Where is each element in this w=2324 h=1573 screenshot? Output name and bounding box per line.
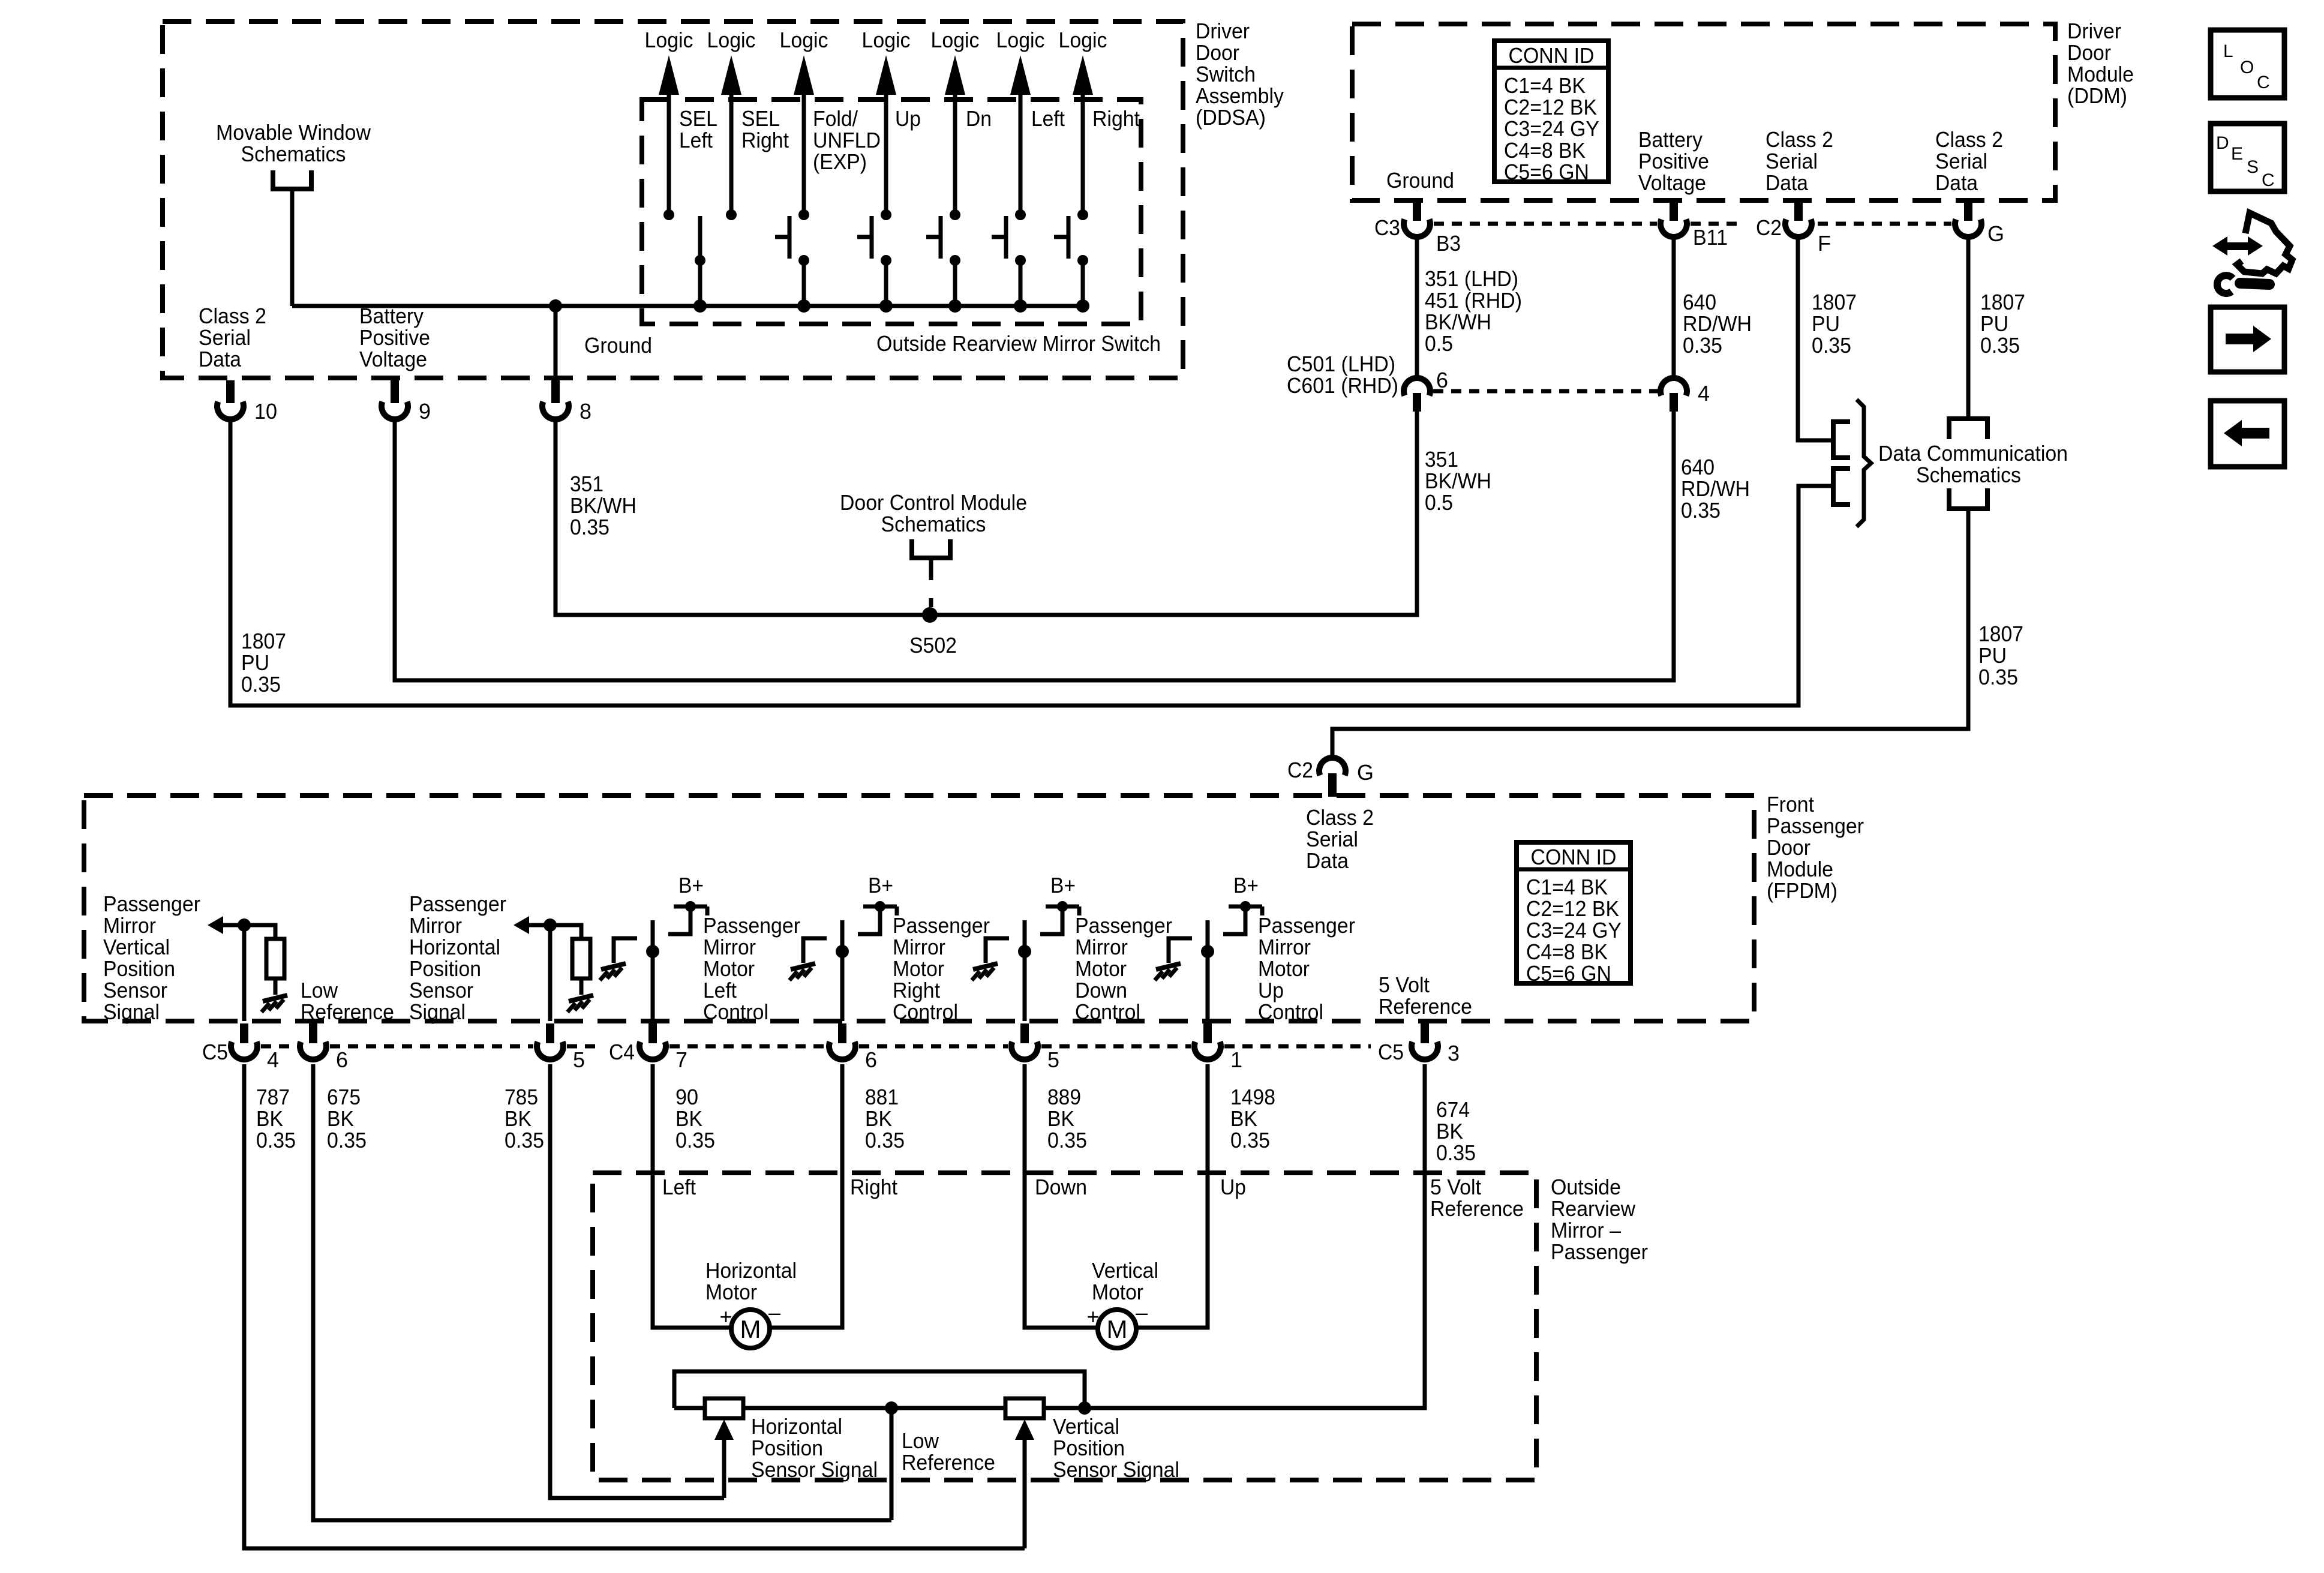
svg-text:1807: 1807 [1980, 290, 2025, 314]
wire: logic output 7 [1081, 91, 1085, 215]
wire: switch 1477 to bus [884, 260, 888, 306]
svg-text:Left: Left [1031, 106, 1065, 131]
connector pin 7 (FPDM bottom) [648, 1023, 657, 1043]
svg-text:Positive: Positive [1638, 149, 1709, 173]
off-page symbol Door Control Module Schematics [912, 539, 950, 558]
svg-text:Logic: Logic [645, 28, 693, 52]
svg-text:C4: C4 [609, 1040, 635, 1064]
svg-text:Mirror: Mirror [893, 935, 945, 959]
svg-text:B+: B+ [1233, 873, 1259, 897]
ground (sensor) x=407 [263, 995, 287, 1001]
svg-text:Control: Control [1075, 999, 1140, 1024]
svg-text:Control: Control [703, 999, 768, 1024]
wire sensor to pin x=407 [242, 925, 247, 1021]
svg-text:(EXP): (EXP) [813, 149, 867, 174]
B+ feed bar (motor Up) [1229, 905, 1262, 909]
wire motor Left control [651, 920, 655, 1021]
switch blade at x=1805 [1067, 216, 1071, 259]
svg-text:Mirror: Mirror [409, 913, 462, 938]
svg-text:Position: Position [1053, 1436, 1125, 1460]
svg-text:6: 6 [865, 1047, 877, 1072]
svg-text:Mirror: Mirror [1258, 935, 1311, 959]
inline connector pin 4 [1661, 378, 1687, 395]
switch blade at x=1592 [939, 216, 943, 259]
wire motor up control to vertical motor [1136, 1064, 1208, 1328]
arrowhead logic 5 [945, 55, 965, 95]
svg-text:C: C [2262, 170, 2275, 190]
box: Outside Rearview Mirror Switch [642, 100, 1141, 324]
wire sensor to pin x=917 [548, 925, 553, 1021]
brace (data comm group) [1857, 400, 1871, 527]
svg-text:B+: B+ [868, 873, 893, 897]
svg-text:Class 2: Class 2 [1765, 127, 1833, 152]
svg-text:BK: BK [675, 1106, 702, 1131]
off-page bracket lower (data comm) [1833, 469, 1850, 505]
svg-text:Sensor Signal: Sensor Signal [751, 1457, 878, 1482]
svg-text:4: 4 [1698, 381, 1710, 406]
wire: logic output 4 [884, 91, 888, 215]
svg-text:4: 4 [267, 1047, 279, 1072]
wire motor Down control [1023, 920, 1027, 1021]
svg-text:(DDSA): (DDSA) [1196, 105, 1266, 130]
svg-text:1: 1 [1230, 1047, 1242, 1072]
svg-text:0.35: 0.35 [327, 1128, 367, 1152]
contact dot SEL blade [695, 255, 705, 266]
svg-text:0.35: 0.35 [1978, 665, 2018, 689]
arrowhead logic 2 [721, 55, 741, 95]
connector pin 6 (FPDM bottom) [309, 1023, 317, 1043]
potentiometer body (vertical) [1005, 1398, 1044, 1418]
svg-text:Front: Front [1767, 792, 1814, 816]
wire: SEL blade to bus [698, 260, 702, 306]
svg-text:C3=24 GY: C3=24 GY [1504, 116, 1599, 141]
svg-text:Serial: Serial [199, 325, 251, 350]
wire: logic output 6 [1019, 91, 1023, 215]
svg-text:Sensor: Sensor [409, 978, 473, 1002]
svg-text:785: 785 [505, 1085, 538, 1109]
svg-text:Data Communication: Data Communication [1878, 441, 2068, 466]
wire 785: FPDM pin 5 to horizontal wiper [550, 1064, 724, 1498]
connector line FPDM [261, 1044, 296, 1049]
svg-text:Class 2: Class 2 [199, 304, 266, 328]
svg-text:E: E [2231, 144, 2243, 164]
icon wrench/diagnostic [2212, 213, 2292, 293]
svg-text:Motor: Motor [705, 1280, 757, 1304]
svg-text:Driver: Driver [1196, 19, 1250, 43]
svg-text:S: S [2247, 157, 2259, 177]
svg-text:881: 881 [865, 1085, 899, 1109]
wire: logic output 3 [802, 91, 806, 215]
svg-text:Schematics: Schematics [881, 512, 986, 536]
svg-text:Door Control Module: Door Control Module [840, 490, 1027, 515]
svg-text:1807: 1807 [1978, 622, 2023, 646]
arrowhead logic 4 [876, 55, 896, 95]
svg-text:Data: Data [1765, 170, 1809, 195]
junction dot sensor x=917 [544, 918, 557, 932]
svg-text:1498: 1498 [1230, 1085, 1275, 1109]
connector pin 6 (FPDM bottom) [838, 1023, 846, 1043]
svg-text:Outside Rearview Mirror Switch: Outside Rearview Mirror Switch [876, 331, 1161, 356]
lower contact dot x=1592 [950, 255, 960, 266]
svg-text:Ground: Ground [584, 333, 652, 358]
svg-text:Class 2: Class 2 [1935, 127, 2003, 152]
svg-text:C5=6 GN: C5=6 GN [1526, 961, 1611, 986]
svg-text:CONN ID: CONN ID [1531, 845, 1617, 869]
svg-text:351: 351 [570, 472, 603, 496]
svg-text:SEL: SEL [741, 106, 780, 131]
svg-text:0.35: 0.35 [1436, 1140, 1476, 1165]
svg-text:O: O [2240, 58, 2254, 77]
connector pin B3 (DDM) [1413, 203, 1421, 221]
svg-text:BK/WH: BK/WH [570, 493, 636, 518]
svg-text:Down: Down [1075, 978, 1127, 1002]
svg-text:Left: Left [679, 128, 713, 152]
svg-text:BK: BK [1436, 1119, 1463, 1143]
module box: Front Passenger Door Module (FPDM) [84, 795, 1754, 1021]
svg-text:Vertical: Vertical [1053, 1414, 1119, 1439]
switch T-bar at x=1340 [775, 235, 789, 239]
svg-text:C2: C2 [1756, 215, 1782, 240]
wiper arrow (horizontal sensor) [722, 1439, 726, 1498]
contact dot switch 4 [881, 209, 891, 220]
contact dot switch 3 [798, 209, 809, 220]
icon box arrow right [2211, 307, 2284, 372]
svg-text:674: 674 [1436, 1097, 1470, 1122]
svg-text:RD/WH: RD/WH [1681, 476, 1750, 501]
wire 675: FPDM pin 6 to low reference [313, 1064, 891, 1520]
svg-text:0.35: 0.35 [570, 515, 609, 539]
svg-text:0.35: 0.35 [256, 1128, 296, 1152]
switch blade: mirror select (SEL) [698, 216, 702, 260]
switch blade at x=1340 [788, 216, 792, 259]
wire: MWS stem to ground bus [290, 189, 295, 306]
svg-text:SEL: SEL [679, 106, 717, 131]
svg-text:BK: BK [327, 1106, 354, 1131]
resistor (sensor pull-down) x=407 [266, 939, 284, 978]
resistor (sensor pull-down) x=917 [572, 939, 590, 978]
svg-text:Switch: Switch [1196, 62, 1256, 86]
wire 5 volt reference [1085, 1064, 1425, 1408]
svg-text:Voltage: Voltage [359, 347, 427, 371]
svg-text:C5: C5 [1378, 1040, 1404, 1064]
svg-text:PU: PU [1980, 311, 2008, 336]
svg-text:Mirror: Mirror [103, 913, 156, 938]
svg-text:Sensor Signal: Sensor Signal [1053, 1457, 1179, 1482]
svg-text:C: C [2257, 73, 2270, 92]
chassis ground (motor Down) [973, 963, 998, 969]
table CONN ID (DDM) [1494, 41, 1608, 184]
B+ feed bar (motor Left) [674, 905, 707, 909]
svg-text:CONN ID: CONN ID [1509, 43, 1595, 68]
svg-text:0.35: 0.35 [505, 1128, 544, 1152]
svg-text:Battery: Battery [1638, 127, 1703, 152]
svg-text:889: 889 [1047, 1085, 1081, 1109]
svg-text:Module: Module [2067, 62, 2134, 86]
switch T-bar at x=1592 [926, 235, 941, 239]
svg-text:Driver: Driver [2067, 19, 2121, 43]
arrowhead logic 1 [659, 55, 679, 95]
junction dot motor Left [646, 945, 659, 958]
junction switch 1805/bus [1076, 299, 1089, 313]
svg-text:0.35: 0.35 [675, 1128, 715, 1152]
wire resistor to ground x=407 [274, 978, 278, 995]
svg-text:Passenger: Passenger [703, 913, 800, 938]
module box: Driver Door Module (DDM) [1352, 24, 2055, 200]
svg-text:Control: Control [893, 999, 958, 1024]
wire motor Right control [840, 920, 845, 1021]
svg-text:0.5: 0.5 [1425, 490, 1453, 515]
svg-text:Down: Down [1035, 1175, 1087, 1199]
junction switch 1340/bus [797, 299, 810, 313]
svg-text:8: 8 [580, 399, 591, 424]
svg-text:Serial: Serial [1306, 827, 1358, 851]
junction dot motor Right [836, 945, 849, 958]
connector pin G C2 (FPDM top) [1328, 773, 1337, 797]
wire 787: FPDM pin 4 to vertical wiper [244, 1064, 1025, 1548]
svg-text:Horizontal: Horizontal [409, 935, 500, 959]
svg-text:Data: Data [1306, 848, 1349, 873]
svg-text:Passenger: Passenger [1551, 1239, 1648, 1264]
svg-text:C4=8 BK: C4=8 BK [1526, 939, 1608, 964]
svg-text:C1=4 BK: C1=4 BK [1504, 73, 1586, 98]
svg-text:Door: Door [1196, 40, 1239, 65]
svg-text:Mirror: Mirror [1075, 935, 1128, 959]
svg-text:Passenger: Passenger [1075, 913, 1172, 938]
connector pin 3 (FPDM bottom) [1421, 1023, 1429, 1043]
B+ dot (motor Left) [685, 901, 696, 912]
junction SEL blade/bus [693, 299, 707, 313]
wire 351 BK/WH: DDM ground pin to inline connector 6 [1415, 238, 1419, 380]
off-page symbol on G wire (bottom) [1949, 488, 1987, 509]
chassis ground (motor Up) [1156, 963, 1181, 969]
contact dot switch 1 [663, 209, 674, 220]
lower contact dot x=1477 [881, 255, 891, 266]
svg-text:C1=4 BK: C1=4 BK [1526, 875, 1608, 899]
svg-text:Position: Position [751, 1436, 823, 1460]
svg-text:Right: Right [893, 978, 940, 1002]
svg-text:6: 6 [336, 1047, 348, 1072]
B+ dot (motor Down) [1057, 901, 1068, 912]
svg-text:+: + [1086, 1304, 1099, 1329]
svg-text:+: + [719, 1304, 732, 1329]
switch blade at x=1477 [870, 216, 874, 259]
svg-text:0.35: 0.35 [1681, 498, 1721, 523]
svg-text:M: M [740, 1315, 761, 1343]
svg-text:0.35: 0.35 [1812, 333, 1851, 358]
junction dot motor Down [1018, 945, 1031, 958]
icon box LOC [2211, 30, 2284, 98]
svg-text:Ground: Ground [1386, 168, 1454, 193]
motor M2 (vertical) [1098, 1310, 1136, 1348]
svg-text:Positive: Positive [359, 325, 430, 350]
svg-text:Movable Window: Movable Window [216, 120, 371, 145]
wire to pull-up resistor x=917 [550, 925, 581, 939]
wire 640 RD/WH: inline 4 down/left to DDSA pin 9 [395, 412, 1674, 680]
svg-text:9: 9 [419, 399, 431, 424]
svg-text:C5=6 GN: C5=6 GN [1504, 160, 1589, 184]
svg-text:BK: BK [505, 1106, 532, 1131]
connector pin 4 (FPDM bottom) [240, 1023, 248, 1043]
connector pin F (DDM) [1794, 203, 1803, 221]
svg-text:Rearview: Rearview [1551, 1196, 1636, 1221]
svg-text:Position: Position [103, 956, 175, 981]
icon box arrow left [2211, 401, 2284, 467]
wiper arrow (vertical sensor) [1023, 1439, 1027, 1548]
svg-text:3: 3 [1448, 1041, 1460, 1065]
svg-text:Low: Low [902, 1428, 939, 1453]
svg-text:Module: Module [1767, 857, 1833, 881]
svg-text:C2=12 BK: C2=12 BK [1504, 95, 1597, 119]
svg-text:Control: Control [1258, 999, 1323, 1024]
svg-text:Reference: Reference [902, 1450, 995, 1475]
svg-text:BK: BK [1047, 1106, 1074, 1131]
svg-text:5 Volt: 5 Volt [1430, 1175, 1481, 1199]
svg-text:Reference: Reference [1430, 1196, 1524, 1221]
switch blade high-side (motor Right) [858, 906, 880, 934]
svg-text:C2: C2 [1287, 758, 1313, 782]
lower contact dot x=1805 [1077, 255, 1088, 266]
contact dot switch 6 [1015, 209, 1026, 220]
svg-text:F: F [1818, 231, 1831, 256]
svg-text:Mirror –: Mirror – [1551, 1218, 1621, 1242]
inline connector C501/C601 pin 6 [1404, 378, 1430, 395]
svg-text:0.35: 0.35 [241, 672, 281, 697]
svg-text:PU: PU [241, 650, 269, 675]
ground branch low-side (motor Up) [1169, 938, 1192, 963]
svg-text:Passenger: Passenger [103, 891, 200, 916]
arrowhead logic 6 [1010, 55, 1031, 95]
icon box DESC [2211, 124, 2284, 191]
svg-text:0.35: 0.35 [1980, 333, 2020, 358]
svg-text:Logic: Logic [707, 28, 756, 52]
wire: mirror switch ground bus [292, 304, 1083, 308]
svg-text:Vertical: Vertical [103, 935, 170, 959]
svg-text:6: 6 [1436, 368, 1448, 392]
svg-text:0.5: 0.5 [1425, 331, 1453, 356]
svg-text:Signal: Signal [103, 999, 160, 1024]
svg-text:675: 675 [327, 1085, 361, 1109]
module box: Driver Door Switch Assembly (DDSA) [163, 22, 1183, 378]
arrowhead logic 7 [1073, 55, 1093, 95]
B+ feed bar (motor Down) [1046, 905, 1079, 909]
wire resistor to ground x=917 [580, 978, 584, 995]
svg-text:C2=12 BK: C2=12 BK [1526, 896, 1619, 921]
svg-text:PU: PU [1978, 643, 2007, 668]
svg-text:0.35: 0.35 [1047, 1128, 1087, 1152]
contact dot switch 7 [1077, 209, 1088, 220]
svg-text:Door: Door [1767, 835, 1810, 860]
svg-text:(DDM): (DDM) [2067, 83, 2127, 108]
arrowhead logic 3 [794, 55, 814, 95]
svg-text:BK/WH: BK/WH [1425, 469, 1491, 493]
B+ feed bar (motor Right) [863, 905, 897, 909]
junction switch 1701/bus [1014, 299, 1027, 313]
svg-text:640: 640 [1683, 290, 1716, 314]
svg-text:RD/WH: RD/WH [1683, 311, 1752, 336]
svg-text:Passenger: Passenger [893, 913, 990, 938]
svg-text:C4=8 BK: C4=8 BK [1504, 138, 1586, 163]
svg-text:Fold/: Fold/ [813, 106, 858, 131]
wire: pin 8 to box edge [554, 306, 558, 379]
svg-text:Logic: Logic [1059, 28, 1107, 52]
svg-text:351 (LHD): 351 (LHD) [1425, 266, 1518, 291]
svg-text:–: – [768, 1300, 780, 1325]
wire 1807 PU: DDM pin F to data comm bracket [1798, 238, 1831, 440]
wire motor right control to horizontal motor [769, 1064, 842, 1328]
svg-text:G: G [1357, 760, 1374, 785]
svg-text:Voltage: Voltage [1638, 170, 1706, 195]
wire motor left control to horizontal motor [653, 1064, 732, 1328]
lower contact dot x=1340 [798, 255, 809, 266]
svg-text:Low: Low [301, 978, 338, 1002]
table CONN ID (FPDM) [1517, 842, 1631, 986]
wire sensor element line [674, 1406, 1425, 1410]
wire: logic output 2 [729, 91, 734, 215]
wire 1807 PU: data comm symbol to FPDM C2 pin G [1332, 509, 1968, 758]
connector pin 8 (DDSA) [551, 380, 560, 403]
svg-text:C501 (LHD): C501 (LHD) [1287, 352, 1395, 376]
off-page symbol on G wire (top) [1949, 419, 1987, 439]
svg-text:Signal: Signal [409, 999, 466, 1024]
svg-text:Horizontal: Horizontal [705, 1258, 797, 1283]
connector line C501 [1433, 389, 1658, 394]
svg-text:Logic: Logic [931, 28, 980, 52]
junction dot sensor x=407 [238, 918, 251, 932]
signal arrow (x=917) [514, 916, 529, 934]
wire sensor top rail [674, 1371, 1085, 1408]
off-page bracket upper (data comm) [1833, 422, 1850, 458]
connector pin 10 (DDSA) [226, 380, 235, 403]
off-page symbol: Movable Window Schematics [273, 170, 311, 189]
ground branch low-side (motor Right) [803, 938, 827, 963]
wire: switch 1592 to bus [953, 260, 957, 306]
module box: Outside Rearview Mirror - Passenger [593, 1173, 1536, 1480]
svg-text:BK: BK [1230, 1106, 1257, 1131]
svg-text:Right: Right [1092, 106, 1140, 131]
svg-text:Schematics: Schematics [241, 142, 346, 166]
junction dot low reference [885, 1401, 898, 1415]
svg-text:0.35: 0.35 [1683, 333, 1722, 358]
svg-text:Logic: Logic [780, 28, 828, 52]
svg-text:Mirror: Mirror [703, 935, 756, 959]
svg-text:Serial: Serial [1935, 149, 1987, 173]
svg-text:M: M [1107, 1315, 1128, 1343]
wire motor Up control [1206, 920, 1210, 1021]
svg-text:BK: BK [256, 1106, 283, 1131]
wire 351: inline 6 down/left to S502 and DDSA pin 8 [556, 412, 1417, 615]
svg-text:(FPDM): (FPDM) [1767, 878, 1837, 903]
svg-text:Motor: Motor [703, 956, 755, 981]
svg-text:90: 90 [675, 1085, 698, 1109]
svg-text:787: 787 [256, 1085, 290, 1109]
svg-text:Class 2: Class 2 [1306, 805, 1374, 830]
chassis ground (motor Right) [791, 963, 815, 969]
ground (sensor) x=917 [569, 995, 593, 1001]
svg-text:351: 351 [1425, 447, 1458, 472]
svg-text:0.35: 0.35 [1230, 1128, 1270, 1152]
potentiometer body (horizontal) [705, 1398, 743, 1418]
wire: logic output 1 [667, 91, 671, 215]
lower contact dot x=1701 [1015, 255, 1026, 266]
svg-text:Reference: Reference [301, 999, 394, 1024]
wire 640 RD/WH: DDM B+ pin to inline 4 [1672, 238, 1676, 379]
wire: switch 1701 to bus [1019, 260, 1023, 306]
junction dot 5V/sensor rail [1078, 1401, 1091, 1415]
wire: logic output 5 [953, 91, 957, 215]
connector pin B11 (DDM) [1670, 203, 1678, 221]
motor M1 (horizontal) [731, 1310, 770, 1348]
wire: switch 1805 to bus [1081, 260, 1085, 306]
